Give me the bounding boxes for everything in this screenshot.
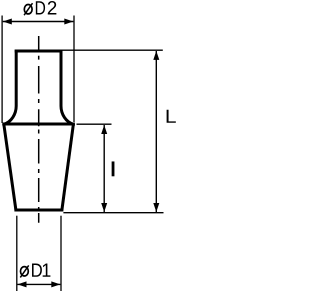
body left taper side <box>4 124 16 210</box>
body bottom edge <box>14 209 63 212</box>
dimension line D1 <box>17 283 60 285</box>
label diameter symbol of D2 <box>24 3 32 15</box>
label diameter symbol of D1 <box>20 265 28 277</box>
label D1 <box>32 264 50 277</box>
extension line D1 left <box>16 216 18 291</box>
dimension line L <box>155 51 157 212</box>
label L <box>167 110 176 123</box>
extension line D2 right <box>73 16 75 123</box>
extension line l top <box>77 123 112 125</box>
body right side with flare <box>61 50 73 125</box>
extension line L bottom <box>63 212 163 214</box>
extension line L top <box>63 49 163 51</box>
dimension line l <box>103 125 105 212</box>
body top cap <box>15 50 63 53</box>
arrowhead D2 right <box>64 19 73 25</box>
arrowhead D1 right <box>51 281 60 287</box>
label l <box>112 161 115 176</box>
extension line D1 right <box>60 216 62 291</box>
body right taper side <box>62 124 74 210</box>
centerline <box>38 36 40 223</box>
arrowhead l top <box>101 125 107 134</box>
arrowhead D1 left <box>18 281 27 287</box>
arrowhead D2 left <box>3 19 12 25</box>
arrowhead l bottom <box>101 203 107 212</box>
label D2 <box>36 1 57 14</box>
body shoulder line <box>2 123 75 126</box>
arrowhead L top <box>153 51 159 60</box>
dimension line D2 <box>3 21 74 23</box>
body left side with flare <box>4 50 16 125</box>
arrowhead L bottom <box>153 203 159 212</box>
extension line D2 left <box>1 16 3 124</box>
